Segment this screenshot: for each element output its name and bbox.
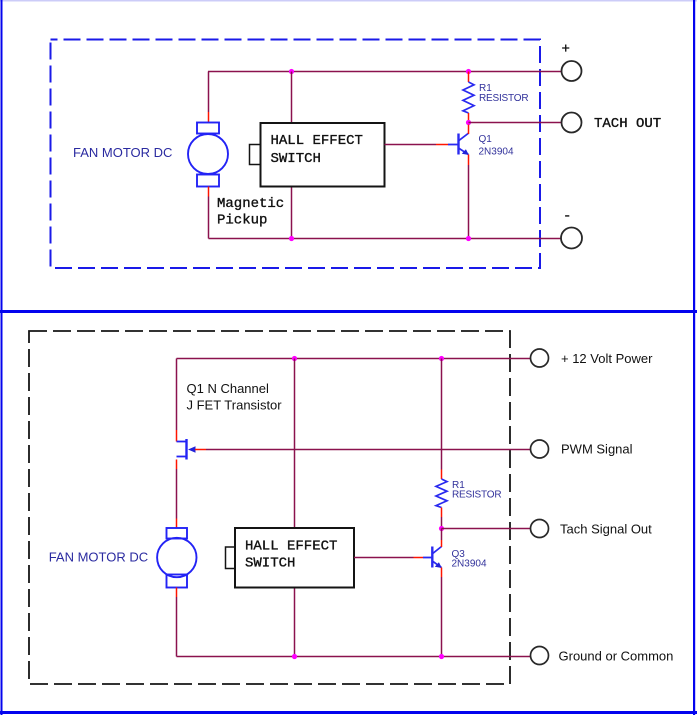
terminal + (top circuit) xyxy=(562,61,582,81)
svg-text:RESISTOR: RESISTOR xyxy=(479,93,528,104)
svg-text:+ 12 Volt Power: + 12 Volt Power xyxy=(561,351,653,366)
wire: Q1 emitter to bottom rail xyxy=(468,165,470,239)
top light border line xyxy=(0,0,697,2)
fan enclosure dashed box (bottom circuit) xyxy=(29,331,510,684)
svg-text:Magnetic: Magnetic xyxy=(217,196,284,212)
node: junction hall/top rail xyxy=(289,69,294,74)
wire: Q3 emitter to ground rail xyxy=(441,577,443,657)
svg-text:Q1 N Channel: Q1 N Channel xyxy=(187,381,269,396)
node: junction R1/top rail xyxy=(466,69,471,74)
node: junction R1/tach xyxy=(466,120,471,125)
node: junction hall/bottom rail xyxy=(289,236,294,241)
motor M1 FAN MOTOR DC (top circuit) xyxy=(188,123,228,187)
wire: PWM signal rail y=449 xyxy=(206,449,531,451)
svg-text:SWITCH: SWITCH xyxy=(271,151,321,167)
terminal TACH OUT xyxy=(562,113,582,133)
node: junction hall/+12V rail xyxy=(292,356,297,361)
svg-text:Pickup: Pickup xyxy=(217,213,267,229)
svg-text:Ground or Common: Ground or Common xyxy=(559,649,674,664)
svg-text:FAN MOTOR DC: FAN MOTOR DC xyxy=(49,550,148,565)
wire: +12V rail y=358 xyxy=(177,358,531,360)
node: junction R1/+12V rail xyxy=(439,356,444,361)
wire: bottom rail y=238 xyxy=(209,238,562,240)
node: junction R1/tach (bottom circuit) xyxy=(439,526,444,531)
wire: motor bottom vertical xyxy=(208,197,210,239)
hall effect switch box U2 (bottom circuit) xyxy=(226,528,355,588)
wire: motor bottom pin stub (red, bottom circuit) xyxy=(176,588,178,598)
wire: hall bottom vertical xyxy=(291,187,293,239)
svg-text:J FET Transistor: J FET Transistor xyxy=(187,398,283,413)
node: junction Q3/ground rail xyxy=(439,654,444,659)
wire: motor bottom pin stub (red) xyxy=(208,187,210,197)
terminal PWM Signal xyxy=(531,440,549,458)
wire: motor top pin stub (red) xyxy=(208,112,210,123)
svg-text:Tach Signal Out: Tach Signal Out xyxy=(560,522,652,537)
wire: Q1 base pin stub (red) xyxy=(436,144,448,146)
svg-text:-: - xyxy=(563,209,571,225)
node: junction hall/ground rail xyxy=(292,654,297,659)
wire: JFET source pin stub (red) xyxy=(176,460,178,470)
terminal Ground or Common xyxy=(531,647,549,665)
wire: JFET drain vertical xyxy=(176,359,178,431)
fan enclosure dashed box (top circuit) xyxy=(51,40,541,269)
svg-text:Q1: Q1 xyxy=(479,134,493,145)
wire: JFET drain pin stub (red) xyxy=(176,430,178,442)
wire: tach signal rail y=528.5 xyxy=(442,528,531,530)
wire: tach out rail y=122.5 xyxy=(469,122,562,124)
resistor R1 (top circuit) xyxy=(468,72,470,83)
resistor R1 (bottom circuit) xyxy=(441,470,443,480)
wire: hall top vertical (bottom circuit) xyxy=(294,359,296,529)
svg-text:PWM Signal: PWM Signal xyxy=(561,442,633,457)
wire: hall top vertical xyxy=(291,72,293,124)
svg-text:TACH OUT: TACH OUT xyxy=(594,116,661,132)
svg-text:SWITCH: SWITCH xyxy=(245,556,295,572)
wire: hall bottom vertical (bottom circuit) xyxy=(294,588,296,657)
JFET gate arrow xyxy=(188,446,196,453)
svg-text:+: + xyxy=(562,42,570,58)
node: junction Q1/bottom rail xyxy=(466,236,471,241)
svg-text:HALL EFFECT: HALL EFFECT xyxy=(271,133,363,149)
hall effect switch box U1 (top circuit) xyxy=(250,123,385,187)
wire: gate pin stub (red) xyxy=(195,449,206,451)
wire: source to motor vertical xyxy=(176,469,178,519)
svg-text:2N3904: 2N3904 xyxy=(479,147,514,158)
wire: ground rail y=656 xyxy=(177,656,531,658)
wire: Q1 base from hall box xyxy=(385,144,437,146)
wire: R1 top vertical (bottom circuit) xyxy=(441,359,443,470)
svg-text:2N3904: 2N3904 xyxy=(452,559,487,570)
wire: motor top pin stub (red, bottom circuit) xyxy=(176,519,178,529)
terminal - (top circuit) xyxy=(561,228,582,249)
transistor Q1 2N3904 (top circuit) xyxy=(448,125,469,166)
wire: motor top vertical xyxy=(208,72,210,113)
terminal Tach Signal Out xyxy=(531,520,549,538)
wire: Q3 base pin stub (red) xyxy=(414,557,424,559)
transistor Q3 2N3904 (bottom circuit) xyxy=(423,529,442,578)
svg-text:HALL EFFECT: HALL EFFECT xyxy=(245,539,337,555)
transistor Q1 N-channel JFET symbol xyxy=(177,439,187,460)
wire: Q3 base from hall box xyxy=(354,557,414,559)
svg-text:FAN MOTOR DC: FAN MOTOR DC xyxy=(73,145,172,160)
wire: motor to ground rail xyxy=(176,597,178,657)
motor M2 FAN MOTOR DC (bottom circuit) xyxy=(157,528,196,588)
svg-text:RESISTOR: RESISTOR xyxy=(452,490,501,501)
wire: top supply rail y=71 xyxy=(208,71,562,73)
terminal + 12 Volt Power xyxy=(531,349,549,367)
